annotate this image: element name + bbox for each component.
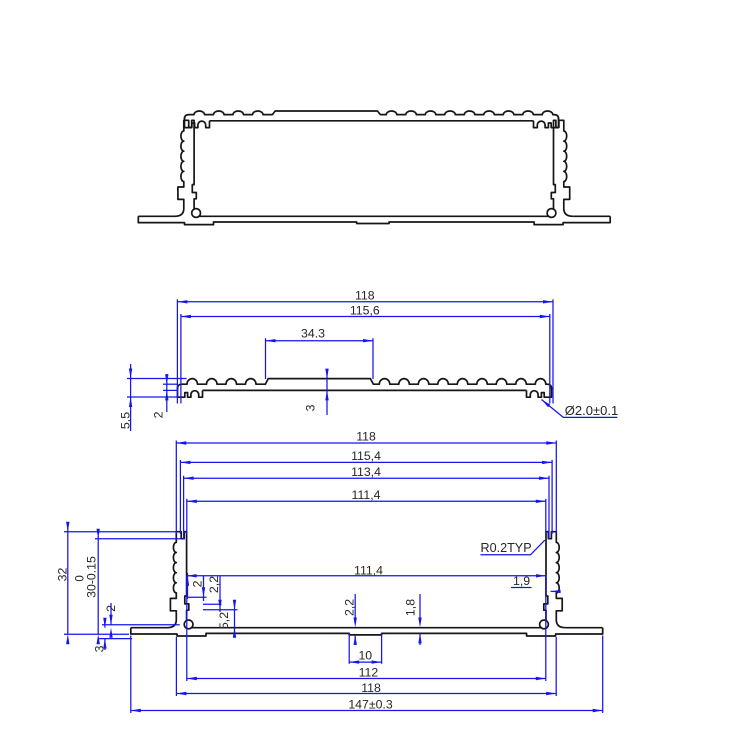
dimension 115,6 (lid) — [181, 303, 550, 318]
dimension 1,9 (wall thickness) — [511, 574, 561, 593]
svg-text:112: 112 — [359, 666, 379, 680]
dimension 3 (flange thickness) — [93, 618, 133, 653]
dimension 2,2 (wall step) — [187, 576, 221, 601]
svg-text:118: 118 — [356, 430, 376, 444]
svg-text:30-0.15: 30-0.15 — [84, 556, 98, 598]
dimension 5,2 (boss to floor) — [203, 576, 238, 638]
svg-text:118: 118 — [361, 681, 381, 695]
svg-text:5,2: 5,2 — [217, 612, 231, 629]
dimension 2 (lid plate thickness) — [152, 374, 178, 418]
svg-text:113,4: 113,4 — [351, 465, 381, 479]
svg-text:2: 2 — [190, 580, 204, 587]
dimension 111,4 (inner cavity) — [187, 563, 546, 577]
svg-text:2,2: 2,2 — [343, 599, 357, 616]
base profile outline (assembled top view) — [138, 120, 610, 224]
leader R0.2TYP (wall corner radius) — [481, 540, 545, 555]
extension lines for lid dims (left) — [177, 299, 181, 403]
dimension 115,4 — [180, 449, 552, 464]
extension lines base top dims (right) — [546, 441, 557, 540]
dimension 2,2 (floor + slot depth) — [343, 594, 357, 645]
dimension 118 top (base overall) — [176, 430, 556, 445]
dimension 113,4 — [184, 465, 549, 480]
svg-text:2: 2 — [104, 605, 118, 612]
svg-text:5,5: 5,5 — [119, 412, 133, 429]
dimension 30-0.15 (inner height) — [74, 529, 181, 645]
svg-text:1,8: 1,8 — [404, 599, 418, 616]
svg-text:32: 32 — [55, 568, 69, 582]
dimension 118 (lid overall width) — [177, 289, 553, 304]
svg-text:1,9: 1,9 — [513, 574, 530, 588]
svg-text:R0.2TYP: R0.2TYP — [481, 541, 532, 555]
dimension 112 (bottom) — [187, 666, 546, 681]
extension lines base top dims (left) — [176, 441, 187, 540]
dimension 111,4 (outer) — [187, 488, 546, 503]
svg-text:10: 10 — [358, 649, 372, 663]
svg-text:111,4: 111,4 — [352, 488, 381, 502]
dimension 118 (bottom) — [176, 681, 556, 695]
svg-text:3: 3 — [93, 645, 107, 652]
dimension 147±0.3 (overall) — [131, 698, 603, 713]
svg-text:3: 3 — [304, 404, 318, 411]
lid profile outline (middle view) — [178, 379, 552, 398]
base profile outline (bottom view) — [131, 532, 603, 636]
svg-text:2,2: 2,2 — [207, 576, 221, 593]
svg-text:111,4: 111,4 — [354, 563, 383, 577]
dimension 5,5 (lid edge height) — [119, 364, 187, 431]
lid profile outline (assembled top view) — [185, 111, 559, 128]
svg-text:147±0.3: 147±0.3 — [348, 698, 393, 712]
extension lines for 34.3 — [266, 338, 374, 379]
svg-text:118: 118 — [355, 289, 375, 303]
dimension 2 (wall ledge) — [186, 573, 205, 599]
svg-text:2: 2 — [152, 411, 166, 418]
svg-text:Ø2.0±0.1: Ø2.0±0.1 — [565, 403, 618, 418]
svg-text:115,4: 115,4 — [351, 449, 381, 463]
dimension 34.3 (lid plateau) — [266, 327, 374, 343]
dimension 2 (flange tip thickness) — [102, 603, 180, 638]
dimension 32 (base height) — [55, 522, 176, 645]
extension lines for lid dims (right) — [550, 299, 553, 403]
svg-text:115,6: 115,6 — [350, 303, 380, 317]
dimension 3 (lid centre thickness) — [304, 369, 329, 415]
leader Ø2.0±0.1 (lid end hole) — [542, 400, 619, 419]
dimension 1,8 (floor thickness) — [404, 594, 422, 645]
extension lines bottom dims — [131, 576, 603, 713]
svg-text:34.3: 34.3 — [301, 327, 325, 341]
dimension 10 (bottom slot) — [349, 634, 381, 664]
